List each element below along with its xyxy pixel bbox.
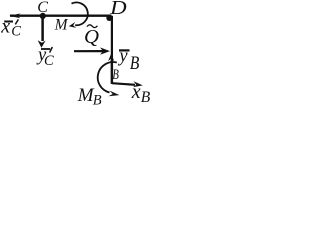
svg-text:B: B <box>93 93 102 109</box>
label ȳ'C <box>36 46 54 70</box>
wire: member C-D horizontal line with reaction shaft to left <box>10 14 112 16</box>
node C dot <box>40 13 46 19</box>
svg-text:B: B <box>130 54 140 74</box>
label MB <box>77 85 102 109</box>
force xB arrow pointing right <box>112 81 143 87</box>
force Q arrow pointing right <box>74 47 110 54</box>
arrowhead of force X'C pointing left <box>9 13 20 18</box>
svg-text:B: B <box>141 89 151 106</box>
label ȳB <box>117 46 139 74</box>
label Q̃ <box>84 25 100 48</box>
svg-text:C: C <box>44 53 54 69</box>
wire: member D-B vertical line <box>111 16 113 84</box>
svg-text:Q: Q <box>84 26 100 48</box>
moment M arc (clockwise) <box>69 2 88 27</box>
svg-text:M: M <box>54 16 69 33</box>
force YB arrow up along bar <box>108 54 114 84</box>
label xB <box>131 81 151 106</box>
force Y'C arrow down from C <box>38 16 46 48</box>
svg-text:B: B <box>112 67 119 83</box>
svg-text:C: C <box>11 24 21 40</box>
svg-text:C: C <box>37 0 48 16</box>
node D dot <box>106 15 112 21</box>
svg-text:x: x <box>0 16 10 38</box>
svg-text:x: x <box>131 81 141 103</box>
label X̄'C <box>0 16 21 40</box>
moment MB arc (counterclockwise) <box>98 62 120 96</box>
